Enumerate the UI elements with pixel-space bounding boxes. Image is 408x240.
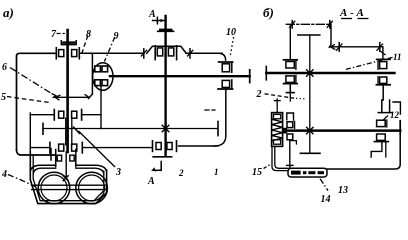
svg-text:11: 11 — [393, 52, 402, 62]
svg-text:А: А — [147, 176, 155, 187]
svg-text:А - А: А - А — [339, 7, 364, 19]
svg-text:7: 7 — [51, 29, 57, 40]
svg-text:4: 4 — [1, 169, 7, 180]
svg-text:2: 2 — [256, 89, 262, 100]
svg-text:б): б) — [263, 5, 274, 20]
svg-text:13: 13 — [338, 185, 348, 196]
svg-text:2: 2 — [178, 168, 184, 178]
svg-text:3: 3 — [115, 167, 121, 178]
svg-text:1: 1 — [214, 167, 219, 177]
svg-text:5: 5 — [1, 92, 6, 103]
svg-text:А: А — [148, 9, 156, 20]
svg-text:14: 14 — [321, 194, 331, 205]
svg-text:9: 9 — [114, 31, 119, 42]
svg-text:10: 10 — [226, 27, 236, 38]
svg-text:8: 8 — [86, 29, 91, 40]
svg-text:6: 6 — [2, 62, 7, 73]
svg-text:12: 12 — [390, 110, 400, 120]
svg-text:а): а) — [3, 5, 14, 20]
svg-text:15: 15 — [252, 167, 262, 178]
